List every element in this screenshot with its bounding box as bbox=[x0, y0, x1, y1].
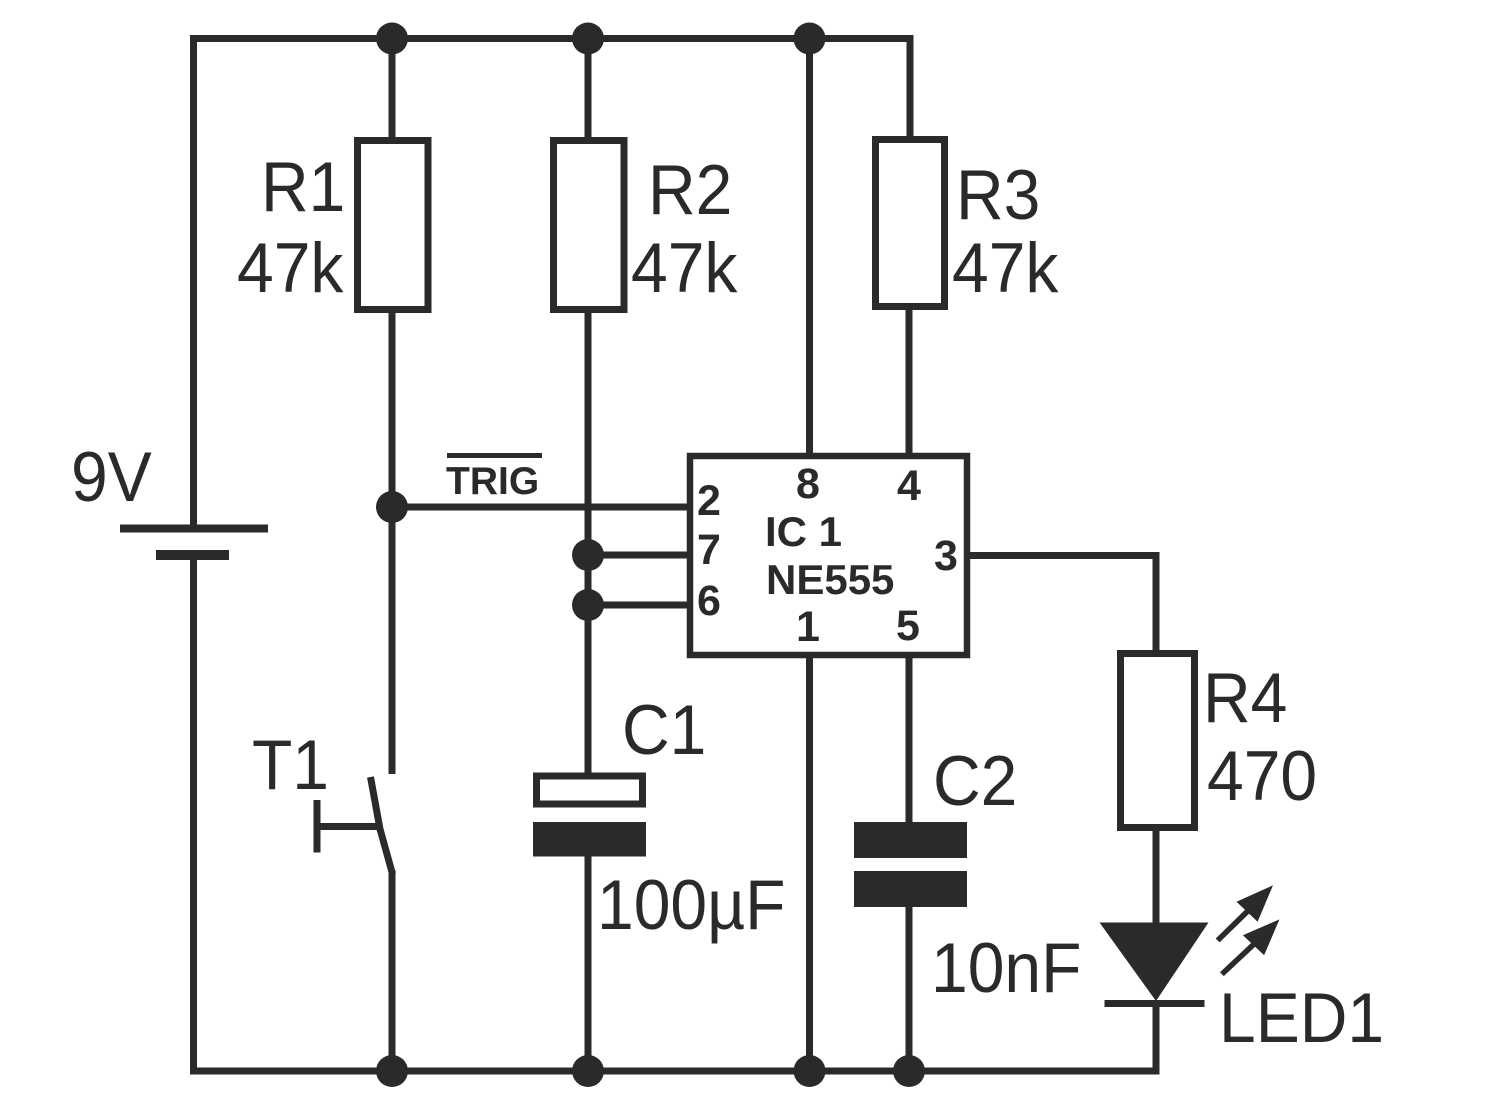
wire T1 upper terminal bbox=[389, 507, 396, 774]
capacitor C1 positive plate bbox=[537, 776, 643, 804]
svg-text:R3: R3 bbox=[956, 156, 1040, 235]
svg-text:8: 8 bbox=[796, 460, 820, 508]
LED1 light arrow upper bbox=[1216, 885, 1273, 942]
wire R2 top bbox=[585, 39, 592, 142]
svg-text:TRIG: TRIG bbox=[446, 460, 539, 503]
svg-text:100µF: 100µF bbox=[597, 866, 785, 945]
svg-text:47k: 47k bbox=[237, 229, 344, 308]
svg-text:T1: T1 bbox=[252, 726, 329, 805]
svg-text:1: 1 bbox=[796, 603, 820, 651]
wire node 7 to IC pin 7 bbox=[588, 552, 689, 559]
wire R3 bottom to IC pin 4 bbox=[906, 308, 913, 456]
resistor R1 label bbox=[261, 148, 345, 227]
wire C1 bottom to ground rail bbox=[585, 854, 592, 1071]
svg-text:C1: C1 bbox=[622, 691, 706, 770]
capacitor C1 label bbox=[622, 691, 706, 770]
svg-text:47k: 47k bbox=[631, 229, 738, 308]
wire IC pin 5 to C2 top bbox=[906, 655, 913, 825]
wire T1 lower terminal bbox=[389, 870, 396, 1071]
junction dot top rail pin 8 bbox=[794, 23, 826, 55]
battery BT1 9V positive plate bbox=[120, 525, 268, 533]
capacitor C2 value 10nF bbox=[931, 929, 1081, 1008]
svg-text:2: 2 bbox=[697, 477, 721, 525]
resistor R4 body bbox=[1121, 654, 1195, 828]
resistor R2 value 47k bbox=[631, 229, 738, 308]
net label TRIG overline bbox=[447, 453, 542, 458]
capacitor C1 negative plate bbox=[533, 822, 646, 857]
LED1 light arrow lower bbox=[1220, 919, 1280, 976]
resistor R4 value 470 bbox=[1207, 737, 1317, 816]
junction dot bottom rail T1 bbox=[376, 1055, 408, 1087]
svg-text:470: 470 bbox=[1207, 737, 1317, 816]
svg-text:C2: C2 bbox=[933, 742, 1017, 821]
svg-text:R2: R2 bbox=[648, 151, 732, 230]
svg-text:47k: 47k bbox=[952, 229, 1059, 308]
junction dot TRIG node bbox=[376, 491, 408, 523]
junction dot top rail R1 bbox=[376, 23, 408, 55]
battery BT1 9V negative plate bbox=[156, 550, 229, 560]
junction dot node pin 7 bbox=[572, 539, 604, 571]
svg-text:LED1: LED1 bbox=[1219, 979, 1384, 1058]
resistor R1 body bbox=[358, 141, 429, 310]
capacitor C2 top plate bbox=[854, 822, 967, 858]
wire R1 top bbox=[389, 39, 396, 142]
resistor R2 body bbox=[554, 141, 625, 310]
capacitor C2 label bbox=[933, 742, 1017, 821]
junction dot bottom rail C2 bbox=[893, 1055, 925, 1087]
wire C2 bottom to bottom rail bbox=[906, 904, 913, 1071]
wire IC pin 8 to top rail bbox=[806, 39, 813, 457]
switch T1 actuator bar bbox=[314, 800, 321, 853]
wire node 6 to IC pin 6 bbox=[588, 602, 689, 609]
svg-text:10nF: 10nF bbox=[931, 929, 1081, 1008]
resistor R4 label bbox=[1203, 659, 1287, 738]
junction dot node pin 6 bbox=[572, 589, 604, 621]
LED1 label bbox=[1219, 979, 1384, 1058]
svg-text:R1: R1 bbox=[261, 148, 345, 227]
svg-text:3: 3 bbox=[934, 532, 958, 580]
resistor R2 label bbox=[648, 151, 732, 230]
junction dot bottom rail C1 bbox=[572, 1055, 604, 1087]
wire battery positive to top rail to R3 top bbox=[194, 39, 911, 526]
svg-text:NE555: NE555 bbox=[766, 556, 894, 603]
switch T1 actuator arm bbox=[317, 823, 380, 830]
battery label 9V bbox=[71, 438, 152, 517]
svg-text:5: 5 bbox=[896, 602, 920, 650]
resistor R3 body bbox=[876, 140, 945, 307]
wire IC pin 1 to bottom rail bbox=[806, 655, 813, 1071]
resistor R3 label bbox=[956, 156, 1040, 235]
resistor R3 value 47k bbox=[952, 229, 1059, 308]
wire IC pin 3 to R4 top bbox=[967, 556, 1156, 654]
wire R2 bottom to C1 top bbox=[585, 312, 592, 776]
svg-text:6: 6 bbox=[697, 577, 721, 625]
svg-text:9V: 9V bbox=[71, 438, 152, 517]
svg-text:7: 7 bbox=[697, 526, 721, 574]
svg-text:IC 1: IC 1 bbox=[765, 508, 842, 555]
capacitor C2 bottom plate bbox=[854, 871, 967, 907]
wire TRIG node to IC pin 2 bbox=[392, 504, 689, 511]
resistor R1 value 47k bbox=[237, 229, 344, 308]
junction dot top rail R2 bbox=[572, 23, 604, 55]
wire R4 bottom to LED anode bbox=[1153, 828, 1160, 925]
wire R1 bottom to TRIG node bbox=[389, 312, 396, 507]
wire battery negative to bottom rail to LED bottom bbox=[194, 558, 1157, 1071]
switch T1 blade bbox=[371, 777, 393, 874]
switch T1 label bbox=[252, 726, 329, 805]
svg-text:4: 4 bbox=[897, 462, 921, 510]
LED1 diode triangle bbox=[1100, 923, 1209, 1002]
IC IC1 NE555 timer body bbox=[690, 456, 967, 655]
svg-text:R4: R4 bbox=[1203, 659, 1287, 738]
LED1 cathode bar bbox=[1105, 1000, 1205, 1007]
capacitor C1 value 100uF bbox=[597, 866, 785, 945]
junction dot bottom rail pin 1 bbox=[794, 1055, 826, 1087]
